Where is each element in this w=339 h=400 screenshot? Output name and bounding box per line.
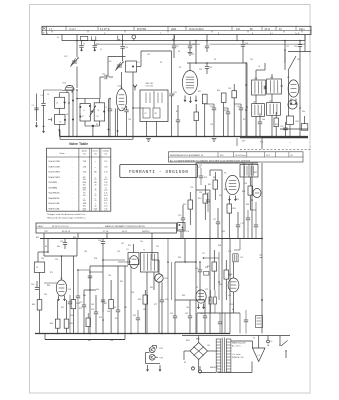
dial lamp circle [132,35,136,39]
dial scale lower row ticks and labels [51,30,53,32]
svg-text:C30: C30 [209,44,212,46]
svg-text:C46: C46 [262,119,265,121]
svg-text:R59: R59 [219,195,222,197]
svg-text:R5: R5 [160,62,162,64]
svg-text:. . .: . . . [71,172,74,174]
wire extra horiz y104 [205,103,214,105]
svg-text:0-4.5: 0-4.5 [104,179,108,181]
capacitor row small a [108,108,112,110]
capacitor extra u3 [258,121,262,123]
IF transformer T2 secondary [267,79,282,94]
svg-text:C73: C73 [198,167,201,169]
wire ll y260 [103,259,125,261]
wire x247 drop [246,63,248,137]
capacitor ll2 x78 [76,295,80,297]
svg-text:C44: C44 [254,78,257,80]
svg-text:C64: C64 [108,275,111,277]
svg-text:C80: C80 [228,295,231,297]
variable capacitor CV2 [117,64,122,66]
svg-text:A.C. 50 c/s: A.C. 50 c/s [232,345,241,348]
loudspeaker triangle [253,348,266,362]
wire top rail B [95,43,200,45]
svg-text:L10: L10 [240,257,243,259]
valve V6 envelope [226,175,240,194]
capacitor C53 left [36,281,38,287]
svg-text:C13: C13 [124,47,127,49]
wire drop from band x62 [61,35,63,41]
capacitor C3 left [43,90,45,103]
svg-text:C53: C53 [31,284,34,286]
svg-text:R70: R70 [230,304,233,306]
capacitor y320 b [244,319,248,321]
capacitor af a [246,217,250,219]
svg-text:(V): (V) [94,153,97,155]
antenna symbol [134,86,136,91]
capacitor mid ladder [198,269,202,271]
coupling transformer T4 [141,253,159,273]
svg-text:MR1: MR1 [196,339,200,341]
wire CV1 to grid [76,67,78,89]
wire transistor bracket [145,353,147,364]
svg-text:C81: C81 [207,345,210,347]
wire lower bottom bus [35,333,230,335]
wire ll edge vert [167,239,169,334]
resistor R14 [221,93,226,103]
svg-text:C78: C78 [228,251,231,253]
svg-text:o: o [290,142,291,144]
svg-text:R65: R65 [222,231,225,233]
svg-text:C34: C34 [210,106,213,108]
capacitor row small b [124,109,128,111]
svg-text:C85: C85 [91,304,94,306]
wire ps bottom [218,372,253,374]
svg-text:R63: R63 [88,340,91,342]
svg-text:185-: 185- [83,205,87,207]
svg-text:C9: C9 [105,107,107,109]
svg-text:C6: C6 [66,114,68,116]
svg-text:V1a ECC85: V1a ECC85 [48,161,60,163]
resistor R43 [37,300,42,310]
svg-text:. . .: . . . [71,208,74,210]
svg-text:CV1: CV1 [64,56,68,58]
wire V1b top [121,72,123,89]
valve V6a pin arrows [198,304,200,309]
svg-text:V4 EM84: V4 EM84 [48,187,58,189]
wire x108 drop [108,99,110,137]
osc can sub box 1 [143,108,150,118]
wire x288 vertical [288,71,290,117]
dial scale band divider line [42,29,311,31]
svg-text:C2: C2 [96,43,98,45]
valve table header rule [47,156,111,158]
svg-text:C92: C92 [199,165,202,167]
svg-text:R58: R58 [205,267,208,269]
svg-text:C69: C69 [186,307,189,309]
wire y313 drops [196,313,198,334]
svg-text:. . .: . . . [71,182,74,184]
wire af y210 [250,209,256,211]
wire x133 drop [132,72,134,137]
svg-text:C86: C86 [107,311,110,313]
svg-text:R47: R47 [104,303,107,305]
capacitor between cans [263,86,265,90]
svg-text:L.S.: L.S. [126,249,130,251]
svg-text:C18: C18 [192,44,195,46]
valve table col line valve [78,148,80,211]
wire second bus line [60,138,133,140]
svg-text:P42: P42 [160,348,163,350]
wire drop from band x174 [173,35,175,46]
svg-text:S2: S2 [178,51,180,53]
switch detail box bottom right [256,316,263,328]
svg-text:C76: C76 [186,231,189,233]
resistor R50 [203,194,208,203]
resistor R54 [248,186,253,195]
svg-text:C9: C9 [97,116,99,118]
svg-text:C66: C66 [131,292,134,294]
svg-text:C71: C71 [213,219,216,221]
svg-text:2.2: 2.2 [104,161,108,163]
svg-text:V6b ECL86: V6b ECL86 [48,208,60,210]
svg-text:C70: C70 [178,215,181,217]
wire x125 drop [124,266,126,334]
IF transformer T3 secondary [267,103,281,116]
svg-text:S1: S1 [57,37,59,39]
wire ladder mid rails [175,261,196,263]
svg-text:C4: C4 [47,94,49,96]
capacitor C31 [206,63,208,66]
wire padder feeds [84,99,86,104]
svg-text:HT: HT [232,309,234,311]
svg-text:185-: 185- [83,200,87,202]
wire if drops [204,104,206,137]
junction bus2 dots [57,333,59,335]
svg-text:T5: T5 [241,162,243,164]
wire left feed y77 [100,76,104,78]
wire x90 drop2 [89,266,91,334]
svg-text:C13: C13 [191,54,194,56]
svg-text:R52: R52 [183,204,186,206]
wire y256 horiz [44,255,77,257]
svg-text:V2b ECH81: V2b ECH81 [48,177,60,179]
release data band outer [36,223,177,233]
svg-text:M.W 550: M.W 550 [137,29,147,31]
capacitor C40 [242,41,244,44]
resistor R45 [64,319,69,328]
svg-text:L7: L7 [83,110,85,112]
padder box A [80,103,90,121]
wire V5 top [61,256,63,280]
svg-text:C65: C65 [195,268,198,270]
svg-text:0-4.5: 0-4.5 [104,195,108,197]
svg-text:R16: R16 [224,110,227,112]
svg-text:170: 170 [83,172,87,174]
wire cans drops [255,95,257,104]
svg-text:R76: R76 [133,315,136,317]
wire left vertical x37 [36,94,38,121]
capacitor bottom row 1 [212,107,216,109]
valve table col strip anode [89,148,91,211]
ground extra g1 [146,138,151,140]
capacitor extra u1 [176,119,180,121]
wire speaker feed [258,336,260,349]
wire y75 link [190,62,192,64]
capacitor ll a [88,275,92,277]
svg-text:V5b: V5b [96,289,99,291]
transistor P43 circle [149,354,155,360]
wire V5b stem [233,262,235,278]
svg-text:CA/N: CA/N [38,225,43,228]
wave switch contact box 1 [81,36,88,40]
svg-text:L8: L8 [258,66,260,68]
svg-text:R49: R49 [138,299,141,301]
bridge rectifier diamond [190,343,208,360]
valve V3 lower triode [288,100,297,109]
valve table col strip screen [98,148,100,211]
valve V1a envelope [65,85,74,90]
capacitor C55 [102,239,104,242]
output transformer box [240,165,258,178]
svg-text:*Voltages read with Avometer m: *Voltages read with Avometer model 8 d.c… [47,213,86,216]
resistor R51 [213,180,218,189]
coil box L3 [55,97,65,108]
wire ps top rail [182,335,290,337]
svg-text:R8: R8 [155,113,157,115]
wire right top bend [288,51,311,53]
wire lower top rail [40,238,262,240]
wire x117 drop [117,108,119,136]
svg-text:C41: C41 [250,59,253,61]
capacitor C72 [236,224,240,226]
resistor R53 [227,204,232,213]
junction af dots [195,261,197,263]
capacitor C1 [81,41,83,45]
svg-text:C52: C52 [60,241,63,243]
wire x103 drop2 [102,248,104,334]
svg-text:CV2: CV2 [108,61,112,63]
svg-text:T6: T6 [253,338,255,340]
coil box C8 [55,114,65,124]
svg-text:R72: R72 [61,307,64,309]
wire y56.5 horiz [108,56,126,58]
wire main HT bus upper [60,136,308,138]
svg-text:185-: 185- [83,179,87,181]
capacitor C30 [205,45,209,47]
resistor R44 [55,319,60,328]
svg-text:185-: 185- [83,195,87,197]
svg-text:C40: C40 [245,43,248,45]
capacitor af b [254,224,258,226]
wire x244 drop [243,163,245,239]
svg-text:. . .: . . . [71,193,74,195]
notes block box [169,152,304,162]
svg-text:R43: R43 [32,304,35,306]
svg-text:R60: R60 [83,295,86,297]
wire bus extra right stroke [262,136,308,138]
junction rail dots [76,40,78,42]
svg-text:C55: C55 [98,240,101,242]
svg-text:0-4.5: 0-4.5 [104,184,108,186]
mains transformer primary winding [216,339,221,372]
capacitor C70 [181,217,185,219]
wire x262 ladder right edge [261,163,263,333]
fuse link [267,336,269,341]
wire left bend [38,251,48,253]
svg-text:C61: C61 [170,313,173,315]
svg-text:C83: C83 [44,294,47,296]
svg-text:16,31,41,49 M: 16,31,41,49 M [189,29,204,31]
svg-text:Ts: Ts [43,33,45,35]
capacitor C57 [82,304,86,306]
svg-text:C7: C7 [82,116,84,118]
svg-text:R44: R44 [50,323,53,325]
svg-text:. . .: . . . [71,161,74,163]
variable capacitor CV1 [72,60,77,62]
svg-text:R19: R19 [275,124,278,126]
svg-text:R79: R79 [128,245,131,247]
svg-text:C89: C89 [84,251,87,253]
svg-text:SUPPLY: SUPPLY [142,231,150,233]
wire y258 link [204,257,220,259]
svg-text:R7: R7 [145,113,147,115]
svg-text:30: 30 [94,200,96,202]
wire x237 stub below bus [236,138,238,146]
svg-text:C45: C45 [270,77,273,79]
svg-text:V3a: V3a [302,111,305,113]
wire x252 drop [251,163,253,239]
svg-text:0-4.5: 0-4.5 [104,211,108,213]
wire ll edge vert2 [171,262,173,300]
wire y290 horiz [84,289,96,291]
svg-text:L8: L8 [98,110,100,112]
svg-text:C79: C79 [205,289,208,291]
svg-text:. . .: . . . [71,177,74,179]
wire drop from band x77 [76,35,78,58]
wire x262 above notes [261,138,263,149]
transistor arrows down [147,365,149,371]
wire y266 horiz [90,265,128,267]
wire y300 horiz [175,299,205,301]
oscillator coupling box [126,61,137,72]
resistor R49 [143,295,148,304]
valve V3 arrows [290,99,292,105]
padder box B [94,103,104,121]
dashed separator line [240,149,311,151]
svg-text:C35: C35 [210,124,213,126]
svg-text:L.S. 3 ohm: L.S. 3 ohm [232,354,241,356]
svg-text:MADE BY FERRANTI PLYMOUTH DEV: MADE BY FERRANTI PLYMOUTH DEVON [105,225,145,228]
svg-text:R64: R64 [246,204,249,206]
capacitor ll2 x70 [68,301,72,303]
svg-text:C17: C17 [176,46,179,48]
valve V5b tube [228,278,239,292]
svg-text:C16: C16 [128,119,131,121]
svg-text:30: 30 [94,179,96,181]
svg-text:R53: R53 [233,208,236,210]
transistor P42 circle [149,347,155,353]
svg-text:R3: R3 [96,124,98,126]
svg-text:C68: C68 [110,340,113,342]
box right mid [287,116,294,125]
output choke coil [233,254,238,262]
earth arrow below C3 [43,128,45,133]
wire ladder top [196,162,258,164]
wire x219 vert [218,252,220,300]
svg-text:3A: 3A [267,344,270,347]
svg-text:F.49: F.49 [242,141,245,143]
resistor R20 [301,124,308,131]
capacitor y320 a [218,321,222,323]
wire V1a pins [66,90,68,93]
svg-text:10.7: 10.7 [266,155,271,157]
svg-text:C59: C59 [113,307,116,309]
wire T4 tails [146,272,148,334]
mains plug pins [192,367,195,370]
valve V6a output tube [196,290,206,303]
svg-text:RESISTANCE/VOLT ALIGNMENT 50: RESISTANCE/VOLT ALIGNMENT 50 [170,154,204,157]
svg-text:25.11: 25.11 [265,29,271,31]
svg-text:Cathode: Cathode [102,150,109,153]
valve V2 envelope [182,71,197,95]
valve V5 envelope [56,280,66,296]
resistor mid 2 [224,270,229,279]
svg-text:L5: L5 [100,49,102,51]
svg-text:L.S.: L.S. [257,355,261,357]
svg-text:R54: R54 [242,191,245,193]
svg-text:85: 85 [94,172,97,174]
resistor ll c [86,318,90,327]
svg-text:Tu S.: Tu S. [295,33,300,35]
resistor extra u4 [274,118,278,127]
svg-text:E1.14.15: E1.14.15 [62,231,71,233]
junction x262 dots [261,238,263,240]
dial scale band outer box [42,26,311,34]
capacitor C18 [189,41,191,46]
wire osc can drops [146,122,148,137]
svg-text:C90: C90 [117,251,120,253]
wire box link [58,93,60,98]
release data band divider [36,227,177,229]
svg-text:V5a EBC81: V5a EBC81 [48,193,60,195]
capacitor near bus right [283,127,287,129]
capacitor C62 [188,315,192,317]
volume pot circle [155,274,163,282]
svg-text:C8: C8 [59,122,61,124]
svg-text:R48: R48 [47,285,50,287]
svg-text:R20: R20 [296,121,299,123]
svg-text:185-: 185- [83,184,87,186]
wire HT bus darker right [240,137,308,139]
svg-text:C82: C82 [41,258,44,260]
wire x300 drop [299,52,301,137]
svg-text:C4: C4 [32,105,34,107]
svg-text:C15: C15 [147,54,150,56]
svg-text:C54: C54 [55,259,58,261]
resistor R47 [109,300,114,309]
svg-text:185-: 185- [83,190,87,192]
capacitor ll d [136,317,140,319]
capacitor C33 blob [232,91,237,98]
wire v5 lower drops [57,300,59,319]
svg-text:R41: R41 [36,237,39,239]
wire bridge stubs [198,336,200,343]
tick on x262 [260,254,263,256]
svg-text:V5b: V5b [228,275,231,277]
svg-text:S3: S3 [214,59,216,61]
svg-text:6 1.17: 6 1.17 [70,29,77,31]
valve V1b triode [116,89,126,111]
svg-text:S4b: S4b [57,246,60,248]
